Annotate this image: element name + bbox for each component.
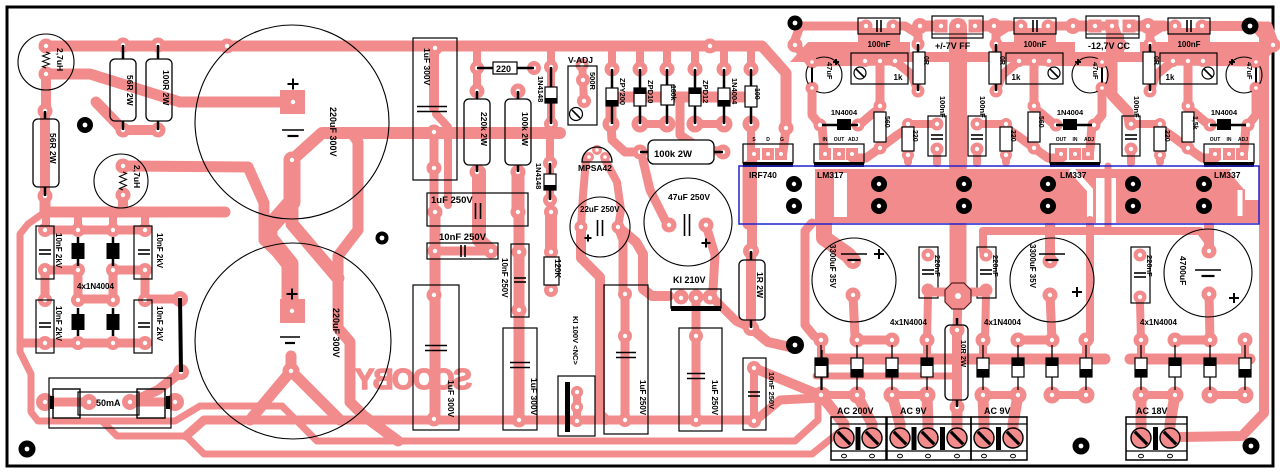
wire 1N4004 right pad up to 560 top xyxy=(1034,108,1056,126)
wire column x625 1uF box1 xyxy=(621,294,630,336)
svg-text:22uF 250V: 22uF 250V xyxy=(580,205,620,214)
resistor R3 56R 2W xyxy=(33,119,59,187)
svg-text:1N4004: 1N4004 xyxy=(831,108,858,117)
svg-text:100nF: 100nF xyxy=(978,96,987,118)
wire 220nF link through octagon pad xyxy=(928,288,986,297)
trimmer 1k regulator xyxy=(851,53,908,84)
svg-text:56R 2W: 56R 2W xyxy=(48,133,58,165)
resistor 100 xyxy=(745,86,757,107)
pads jumper wire xyxy=(172,291,188,307)
terminal block AC 200V xyxy=(831,417,886,460)
wire bridge right to jumper top pad xyxy=(145,295,180,304)
svg-text:IN: IN xyxy=(1227,137,1232,143)
heatsink copper band xyxy=(815,169,1245,223)
wire AC section diode bottom pairs xyxy=(983,391,1018,399)
heatsink mounting holes xyxy=(786,176,802,192)
svg-text:100nF: 100nF xyxy=(1177,40,1200,49)
pads 1N4148 diodes xyxy=(544,60,558,74)
heatsink blue outline xyxy=(739,166,1259,224)
wire 22uF left pad down to bottom bus xyxy=(581,227,606,420)
svg-text:OUT: OUT xyxy=(834,137,845,143)
wire AC section outer columns to mid rail xyxy=(1137,340,1145,359)
white patch around CC connector label xyxy=(1075,42,1140,52)
capacitor box 1uF 300V bottom second xyxy=(503,328,537,430)
capacitor box 1uF 300V top xyxy=(413,38,457,180)
pads V-ADJ top rail xyxy=(576,59,589,72)
wire 1N4004 left pad down to reg IN pad xyxy=(822,125,824,150)
capacitor 220nF 1 xyxy=(919,247,938,298)
svg-text:OUT: OUT xyxy=(1210,137,1221,143)
wire 10nF v right column x754 xyxy=(750,368,758,421)
wire 1N4004 left pad down to reg IN pad xyxy=(1244,125,1246,150)
svg-text:V-ADJ: V-ADJ xyxy=(568,55,593,65)
wire 220nF column 1 xyxy=(927,296,928,340)
wire 100nF cap to corner pad xyxy=(1202,26,1273,45)
white patch around FF connector label xyxy=(910,42,992,52)
resistor 100k 2W horizontal xyxy=(648,140,714,164)
resistor 0R regulator xyxy=(913,52,925,84)
wire top rail y46 from L1 to right side xyxy=(46,46,786,128)
capacitor box 1uF 300V bottom xyxy=(413,285,459,430)
wire 560 bottom to 220 top xyxy=(1006,128,1034,148)
svg-text:1N4148: 1N4148 xyxy=(536,76,545,102)
wire AC section top middle pair link xyxy=(1018,336,1052,345)
wire below band to caps x958 wide xyxy=(950,223,967,294)
jumper wire vertical xyxy=(180,298,181,372)
pad C1 square positive xyxy=(280,90,305,114)
svg-text:560: 560 xyxy=(883,116,890,128)
wire zener top pads drop from rail y46 xyxy=(608,48,616,69)
svg-text:100nF: 100nF xyxy=(1023,40,1046,49)
wire AC section top middle pair link xyxy=(1175,336,1210,345)
svg-text:LM337: LM337 xyxy=(1214,170,1241,180)
capacitor 3300uF 35V right xyxy=(1010,238,1094,322)
svg-text:1N4004: 1N4004 xyxy=(1211,108,1238,117)
mount hole via left xyxy=(77,117,93,133)
wire 220 top to 100nF v top xyxy=(1131,120,1160,128)
wire fuse left link xyxy=(45,398,89,407)
wire 1n4148 lower vertical xyxy=(546,163,554,200)
svg-text:56R 2W: 56R 2W xyxy=(125,75,135,107)
resistor 220 regulator xyxy=(1000,127,1012,151)
wire 1N4148 column x551 to rail xyxy=(547,46,555,133)
svg-text:120K: 120K xyxy=(553,259,562,278)
wire 1R2W column from band xyxy=(747,155,757,251)
svg-text:3300uF 35V: 3300uF 35V xyxy=(828,244,837,289)
pad stub x535 xyxy=(531,67,539,70)
wire zener mid rail y97 xyxy=(611,97,751,124)
pads 22uF 250V xyxy=(575,221,588,234)
pads 1R 2W xyxy=(743,243,759,259)
diode 1N4004 vertical xyxy=(718,88,730,106)
wire 220 bottom and 100nF bottom to band xyxy=(904,155,912,162)
svg-text:LM317: LM317 xyxy=(817,170,844,180)
resistor R2 100R 2W xyxy=(146,59,172,121)
svg-text:+/-7V FF: +/-7V FF xyxy=(935,41,971,51)
diode 1N4148 lower xyxy=(544,174,556,190)
trimmer 1k regulator xyxy=(1160,53,1217,84)
wire 560 bottom to 220 top xyxy=(880,128,908,148)
capacitor 1uF 250V horizontal xyxy=(427,193,528,226)
capacitor 100nF vertical regulator xyxy=(1122,116,1140,156)
resistor 560 regulator xyxy=(1182,112,1194,142)
wire reg block pad to 47uF xyxy=(795,45,812,62)
wire right edge vertical rail xyxy=(1180,26,1264,437)
resistor 220 box xyxy=(493,62,517,74)
pads L2 inductor xyxy=(116,159,131,174)
pads 220nF caps xyxy=(922,249,935,262)
svg-text:1k: 1k xyxy=(894,73,903,82)
svg-text:-12,7V CC: -12,7V CC xyxy=(1088,41,1131,51)
svg-text:10nF 2kV: 10nF 2kV xyxy=(155,233,164,269)
capacitor 100nF vertical regulator xyxy=(928,116,946,156)
svg-text:220: 220 xyxy=(1009,130,1016,142)
capacitor 47uF regulator xyxy=(806,57,842,93)
wire bridge bottom row y343 xyxy=(22,339,145,348)
wire bridge top row y230 xyxy=(46,226,145,235)
octagon junction pad xyxy=(945,283,971,309)
wire C2 bottom pad junction diagonals xyxy=(250,371,340,420)
resistor 10R 2W xyxy=(945,325,968,400)
wire reg 47uF to trimmer row xyxy=(1173,61,1256,62)
mount hole top right xyxy=(1242,18,1259,35)
wire 220 top to 100nF v top xyxy=(908,120,937,128)
capacitor 10nF 2kV top-left xyxy=(36,226,54,279)
svg-text:4x1N4004: 4x1N4004 xyxy=(1140,318,1177,327)
wire 4700uF pads down xyxy=(1209,294,1210,340)
pads 1uF boxes bottom area xyxy=(618,287,632,301)
wire 3300uF left pads to rails xyxy=(853,295,857,340)
resistor 0R regulator xyxy=(989,52,1001,84)
wire CC connector vertical down xyxy=(1112,30,1130,123)
wire AC section diode bottom pairs xyxy=(1141,391,1175,399)
wire 22uF right pad to relay K1 xyxy=(618,227,669,296)
terminal block AC 9V xyxy=(971,417,1027,460)
connector +/-7V FF xyxy=(932,16,983,38)
wire 500R pads vertical xyxy=(582,62,584,102)
svg-text:ZPD12: ZPD12 xyxy=(701,80,710,103)
svg-text:10nF 2kV: 10nF 2kV xyxy=(155,306,164,342)
svg-text:560: 560 xyxy=(1037,116,1044,128)
inductor L1 2,7uH xyxy=(18,34,74,90)
wire IRF740 G pad from rail xyxy=(783,128,786,152)
wire 1N4004 right pad up to 560 top xyxy=(858,108,880,126)
wire R3 bottom pad to mid rail y212 xyxy=(45,196,225,212)
svg-text:4x1N4004: 4x1N4004 xyxy=(77,282,114,291)
svg-text:10nF 250V: 10nF 250V xyxy=(767,372,776,409)
pads 1uF250V right and 10nF xyxy=(511,205,526,220)
wire AC lower rail y376 section1 xyxy=(816,373,957,380)
wire 220 bottom and 100nF bottom to band xyxy=(1002,155,1010,162)
pads mpsa42 xyxy=(584,152,594,162)
bridge diode D2 xyxy=(107,243,120,259)
terminal block AC 18V xyxy=(1126,417,1187,460)
wire reg block pad to 47uF xyxy=(1102,45,1119,62)
wire column x518 below 100k down to bottom bus xyxy=(512,172,525,212)
svg-text:47uF 250V: 47uF 250V xyxy=(668,192,710,202)
wire reg 47uF to trimmer row xyxy=(812,61,895,62)
pads 100k 2W horizontal xyxy=(633,145,648,160)
mount hole top center xyxy=(788,16,803,31)
wire 1R bottom pad right to via dots xyxy=(751,328,790,347)
svg-text:D: D xyxy=(766,137,770,143)
svg-text:ADJ: ADJ xyxy=(1238,137,1248,143)
heatsink white channel right xyxy=(1231,170,1246,216)
capacitor 220nF 2 xyxy=(977,247,996,298)
pad C1 negative xyxy=(284,152,301,169)
wire bottom bus main y420 with pads xyxy=(186,420,756,436)
diode ZPD10 xyxy=(634,88,646,106)
wire L2 top pad rail y166 to C2 entry xyxy=(123,166,287,262)
resistor 0R regulator xyxy=(1143,52,1155,84)
svg-text:220nF: 220nF xyxy=(1145,255,1154,277)
diode 1N4004 regulator xyxy=(1217,119,1231,130)
bridge diode D3 xyxy=(72,314,85,330)
resistor 560 regulator xyxy=(1028,112,1040,142)
svg-text:50mA: 50mA xyxy=(96,398,121,408)
wire mid column x434 top section in 1uF300V box xyxy=(429,48,439,108)
wire through trace under R3 xyxy=(40,111,50,196)
wire CC connector column restored xyxy=(1106,34,1124,52)
svg-text:100nF: 100nF xyxy=(867,40,890,49)
wire rail y133 branch down x358 into bottom bus xyxy=(338,133,398,441)
wire C1 bottom pad diagonal up right to rail y133 xyxy=(292,133,560,160)
capacitor 1uF 250V vertical box1 xyxy=(604,285,648,434)
wire R1 bottom diagonal to C1 feed xyxy=(96,102,123,130)
pads 120K resistor xyxy=(544,205,558,219)
heatsink white channel at LM317 xyxy=(834,173,847,217)
pads on top rail and left section xyxy=(39,39,54,54)
wire bridge columns up to mid rail xyxy=(42,212,50,230)
svg-text:1uF 250V: 1uF 250V xyxy=(710,380,719,416)
wire 220 resistor left pad column xyxy=(473,46,481,91)
svg-text:0R: 0R xyxy=(998,56,1005,65)
wire mpsa42 right pad down to 22uF right pad xyxy=(605,160,621,227)
mount hole bottom mid right xyxy=(1073,438,1090,455)
wire 47uF bottom to 1N4004 left pad xyxy=(812,88,820,125)
wire 10R 2W column x957 xyxy=(957,296,958,330)
svg-text:AC 18V: AC 18V xyxy=(1136,406,1168,416)
pads regulator blocks xyxy=(788,38,803,53)
wire 47uF bottom to 1N4004 left pad xyxy=(1248,88,1256,125)
svg-text:10nF 250V: 10nF 250V xyxy=(439,232,487,243)
svg-text:180k: 180k xyxy=(669,85,676,101)
pads fuse holder xyxy=(36,393,54,411)
svg-text:4700uF: 4700uF xyxy=(1178,256,1188,285)
wire 1uF300V jog to right vertical x448 xyxy=(436,114,448,205)
wire 220nF column 3 xyxy=(1140,303,1141,340)
svg-text:2,7uH: 2,7uH xyxy=(55,48,65,71)
svg-text:MPSA42: MPSA42 xyxy=(578,163,612,173)
wire 22uF right pad down to 1uF box1 top pad xyxy=(618,227,623,294)
diode ZPY200 xyxy=(606,88,618,106)
trimmer 500R xyxy=(568,66,597,125)
capacitor 47uF regulator xyxy=(1072,57,1108,93)
wire bridge second row left pair xyxy=(45,266,78,275)
wire 100nF cap to corner pad xyxy=(795,26,866,45)
resistor 220k 2W xyxy=(464,99,490,165)
wire under 100nF cap B to band xyxy=(1014,28,1056,44)
AC section diodes xyxy=(815,358,827,377)
wire 120K column xyxy=(545,212,557,252)
svg-text:10nF 250V: 10nF 250V xyxy=(500,258,509,298)
svg-text:3300uF 35V: 3300uF 35V xyxy=(1028,244,1037,289)
svg-text:1uF 300V: 1uF 300V xyxy=(446,380,456,418)
capacitor 220nF 3 xyxy=(1131,247,1150,303)
svg-text:220: 220 xyxy=(911,130,918,142)
wire 220 bottom and 100nF bottom to band xyxy=(1156,155,1164,162)
capacitor 47uF regulator xyxy=(1226,57,1262,93)
wire relay right pad to 1R bottom pad xyxy=(711,296,751,328)
diode 1N4004 regulator xyxy=(837,119,851,130)
svg-text:ADJ: ADJ xyxy=(1084,137,1094,143)
svg-text:220uF 300V: 220uF 300V xyxy=(331,308,341,358)
wire bridge column verticals row2 to row3 xyxy=(41,270,50,301)
wire LM317 block feed down to 3300uF left xyxy=(824,220,853,261)
wire C1 bottom pad wide vertical into C2 positive pad xyxy=(269,163,292,306)
svg-text:220uF 300V: 220uF 300V xyxy=(328,107,338,157)
svg-text:2,7uH: 2,7uH xyxy=(132,165,142,188)
capacitor 1uF 250V vertical box2 xyxy=(679,328,722,431)
wire bottom pads row y124 links xyxy=(640,120,667,128)
terminal block AC 9V xyxy=(887,417,971,460)
wire 10nF pad diagonal to diode pad 822 xyxy=(754,368,822,396)
svg-text:ADJ: ADJ xyxy=(848,137,858,143)
diode ZPD12 xyxy=(689,88,701,106)
capacitor 4700uF xyxy=(1164,229,1252,317)
wire bridge second row right pair xyxy=(113,266,145,275)
wire mid column x434 lower section xyxy=(430,132,439,212)
capacitor 10nF 2kV bottom-right xyxy=(134,300,152,353)
wire R1 R2 bottom pads join y130 xyxy=(123,125,158,135)
wire mid rail to left edge vertical and bottom bus A xyxy=(20,212,818,441)
pad C2 negative xyxy=(283,363,300,380)
wire trimmer mid pad down to 560 xyxy=(1184,61,1193,106)
pads FF connector outer xyxy=(912,18,928,34)
pads 10R 2W xyxy=(950,323,965,338)
svg-text:IN: IN xyxy=(1073,137,1078,143)
svg-text:1uF 300V: 1uF 300V xyxy=(422,48,432,86)
pads bridge rows xyxy=(38,223,52,237)
heatsink white gap before second block xyxy=(1096,178,1116,223)
wire below band right 3300uF xyxy=(1045,223,1055,261)
wire trimmer end to 0R bottom xyxy=(996,61,1019,91)
wire central supply vertical x958 from FF connector to band xyxy=(949,27,967,166)
svg-text:220k 2W: 220k 2W xyxy=(479,112,489,147)
bridge diode D4 xyxy=(107,314,120,330)
wire column x696 1uF box2 down xyxy=(692,336,701,420)
trimmer 1k regulator xyxy=(1006,53,1063,84)
wire AC section top middle pair link xyxy=(857,336,892,345)
svg-text:1N4148: 1N4148 xyxy=(534,163,543,189)
pads mid column x435 xyxy=(427,125,442,140)
pads 10nF 250V vertical right xyxy=(747,361,761,375)
capacitor 22uF 250V xyxy=(570,197,630,257)
wire column x477 below 220k to lower caps xyxy=(479,172,491,251)
svg-text:ZPD10: ZPD10 xyxy=(646,80,655,103)
capacitor 3300uF 35V left xyxy=(812,238,896,322)
svg-text:KI 210V: KI 210V xyxy=(673,275,706,285)
wire top supply wide band across regulator blocks xyxy=(790,42,1268,62)
wire 47uF right pad down to relay right xyxy=(706,225,715,290)
resistor 180k xyxy=(661,85,674,105)
svg-text:1k: 1k xyxy=(1166,73,1175,82)
svg-text:500R: 500R xyxy=(588,72,597,91)
wire diode outputs down to terminal screws xyxy=(821,395,844,437)
svg-text:ZPY200: ZPY200 xyxy=(618,78,627,105)
connector LM317 TO220 pads xyxy=(814,144,864,163)
via black dot right of C1 xyxy=(376,232,389,245)
wire reg block pad to 47uF xyxy=(1256,45,1273,62)
pads zener cluster top row y69 xyxy=(605,62,620,77)
svg-text:4x1N4004: 4x1N4004 xyxy=(890,318,927,327)
wire C2 pad stub xyxy=(286,356,297,371)
resistor 560 regulator xyxy=(874,112,886,142)
resistor 220 regulator xyxy=(902,127,914,151)
pads FF connector squares xyxy=(935,20,948,33)
pads R1 R2 bottoms xyxy=(116,123,131,138)
wire trimmer end to 0R bottom xyxy=(895,61,918,91)
wire L1 pad down to R3 top pad xyxy=(41,74,51,111)
svg-text:IN: IN xyxy=(823,137,828,143)
pads 220 resistor xyxy=(470,61,484,75)
wire 1N4004 right pad up to 560 top xyxy=(1188,108,1210,126)
wire IRF740 S pad from 100 resistor xyxy=(747,124,755,154)
svg-text:AC 200V: AC 200V xyxy=(837,406,874,416)
svg-text:G: G xyxy=(780,137,784,143)
connector -12,7V CC xyxy=(1086,16,1139,38)
pads G pad column x786 xyxy=(779,121,794,136)
connector IRF740 TO220 pads xyxy=(743,144,793,163)
wire AC mid rails y359 xyxy=(826,354,1105,365)
wire AC section outer columns to mid rail xyxy=(979,340,987,359)
heatsink white channel diagonal mid xyxy=(1071,169,1090,219)
capacitor 10nF 2kV bottom-left xyxy=(36,300,54,353)
diode 1N4004 regulator xyxy=(1063,119,1077,130)
wire 220nF column 2 xyxy=(985,296,986,340)
pads zener cluster bottom row y124 xyxy=(603,116,620,133)
wire 560 bottom to 220 top xyxy=(1160,128,1188,148)
wire 560 bottom to reg ADJ pad xyxy=(1034,148,1062,158)
wire FF connector center column restored xyxy=(949,34,967,52)
wire 560 bottom to reg ADJ pad xyxy=(1188,148,1216,158)
svg-text:1,5k: 1,5k xyxy=(1191,116,1198,130)
wire jumper bottom pad to fuse pad xyxy=(130,372,181,402)
capacitor 100nF top regulator xyxy=(1014,18,1056,34)
svg-text:100k 2W: 100k 2W xyxy=(520,112,530,147)
resistor 220 regulator xyxy=(1154,127,1166,151)
wire fuse right link xyxy=(130,398,175,407)
resistor 100k 2W vertical xyxy=(505,99,531,165)
svg-text:1R 2W: 1R 2W xyxy=(755,272,765,299)
inductor L2 2,7uH xyxy=(94,154,148,208)
svg-text:220: 220 xyxy=(1163,130,1170,142)
wire trimmer mid pad down to 560 xyxy=(1030,61,1039,106)
wire trimmer end to 0R bottom xyxy=(1150,61,1173,91)
svg-text:KI 100V <NC>: KI 100V <NC> xyxy=(571,316,580,365)
connector KI 100V NC xyxy=(558,376,595,436)
pads AC sections xyxy=(814,333,829,348)
svg-text:4x1N4004: 4x1N4004 xyxy=(984,318,1021,327)
wire 0R top to 100nF cap xyxy=(893,26,918,44)
wire CC trace through band gap xyxy=(1105,166,1112,231)
diode vertical at x822 xyxy=(816,359,828,377)
svg-text:0R: 0R xyxy=(1152,56,1159,65)
svg-text:1uF 250V: 1uF 250V xyxy=(431,195,473,206)
pads KI 100V connector xyxy=(571,386,583,398)
connector LM337 TO220 pads first xyxy=(1050,144,1100,163)
wire band crossing x752 xyxy=(743,166,754,224)
